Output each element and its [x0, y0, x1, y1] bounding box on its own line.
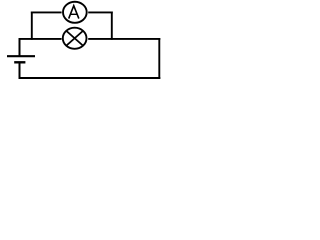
wire: battery bottom lead (vertical) [19, 62, 21, 79]
battery cell: short negative plate [14, 61, 25, 63]
wire: right vertical [158, 38, 160, 79]
wire: ammeter branch top-right segment [88, 11, 113, 13]
wire: bottom horizontal [19, 77, 161, 79]
wire: ammeter branch top-left segment [31, 11, 62, 13]
wire: lamp branch right segment [88, 38, 160, 40]
battery cell: long positive plate [7, 55, 35, 57]
lamp L1 (circle with X) [63, 28, 87, 49]
ammeter A1 (circle with letter A) [63, 2, 87, 23]
wire: battery top lead (vertical) [19, 38, 21, 56]
wire: ammeter branch left vertical [31, 12, 33, 40]
wire: ammeter branch right vertical [111, 12, 113, 40]
wire: lamp branch left segment [19, 38, 62, 40]
